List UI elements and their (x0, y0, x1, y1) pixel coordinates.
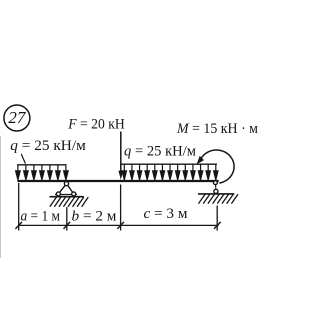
svg-text:a = 1 м: a = 1 м (21, 208, 61, 224)
svg-text:F = 20 кН: F = 20 кН (67, 115, 124, 132)
svg-text:q = 25 кН/м: q = 25 кН/м (10, 137, 86, 154)
svg-text:27: 27 (8, 108, 27, 127)
svg-text:c = 3 м: c = 3 м (144, 206, 189, 222)
svg-text:b = 2 м: b = 2 м (72, 208, 118, 224)
svg-text:M = 15 кН · м: M = 15 кН · м (176, 120, 258, 137)
svg-text:q = 25 кН/м: q = 25 кН/м (124, 142, 196, 159)
